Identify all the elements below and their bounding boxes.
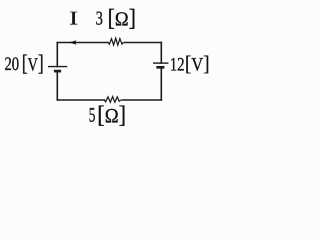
svg-text:[Ω]: [Ω] [97, 101, 126, 128]
svg-text:3: 3 [96, 9, 103, 30]
svg-text:[V]: [V] [22, 51, 44, 76]
svg-text:5: 5 [89, 105, 96, 127]
svg-text:20: 20 [5, 54, 20, 75]
svg-text:12: 12 [170, 54, 185, 75]
svg-text:[V]: [V] [185, 52, 210, 76]
svg-text:[Ω]: [Ω] [108, 6, 137, 32]
svg-text:I: I [69, 9, 78, 30]
